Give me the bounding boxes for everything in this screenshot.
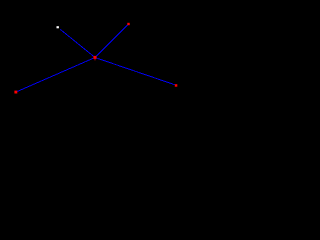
node B (red, upper right): [127, 23, 129, 25]
node D (red, lower right): [175, 84, 178, 87]
wire: edge from top-right node to center hub: [95, 24, 129, 58]
wire: edge from bottom-right node to center hub: [95, 58, 176, 86]
node C (red, lower left): [14, 91, 17, 94]
wire: edge from white node to center hub: [60, 29, 95, 57]
node A (white, upper left): [57, 26, 59, 28]
node hub (red, center): [93, 56, 96, 59]
node hub halo (faint dark red below center): [94, 59, 96, 61]
wire: edge from bottom-left node to center hub: [16, 58, 95, 93]
